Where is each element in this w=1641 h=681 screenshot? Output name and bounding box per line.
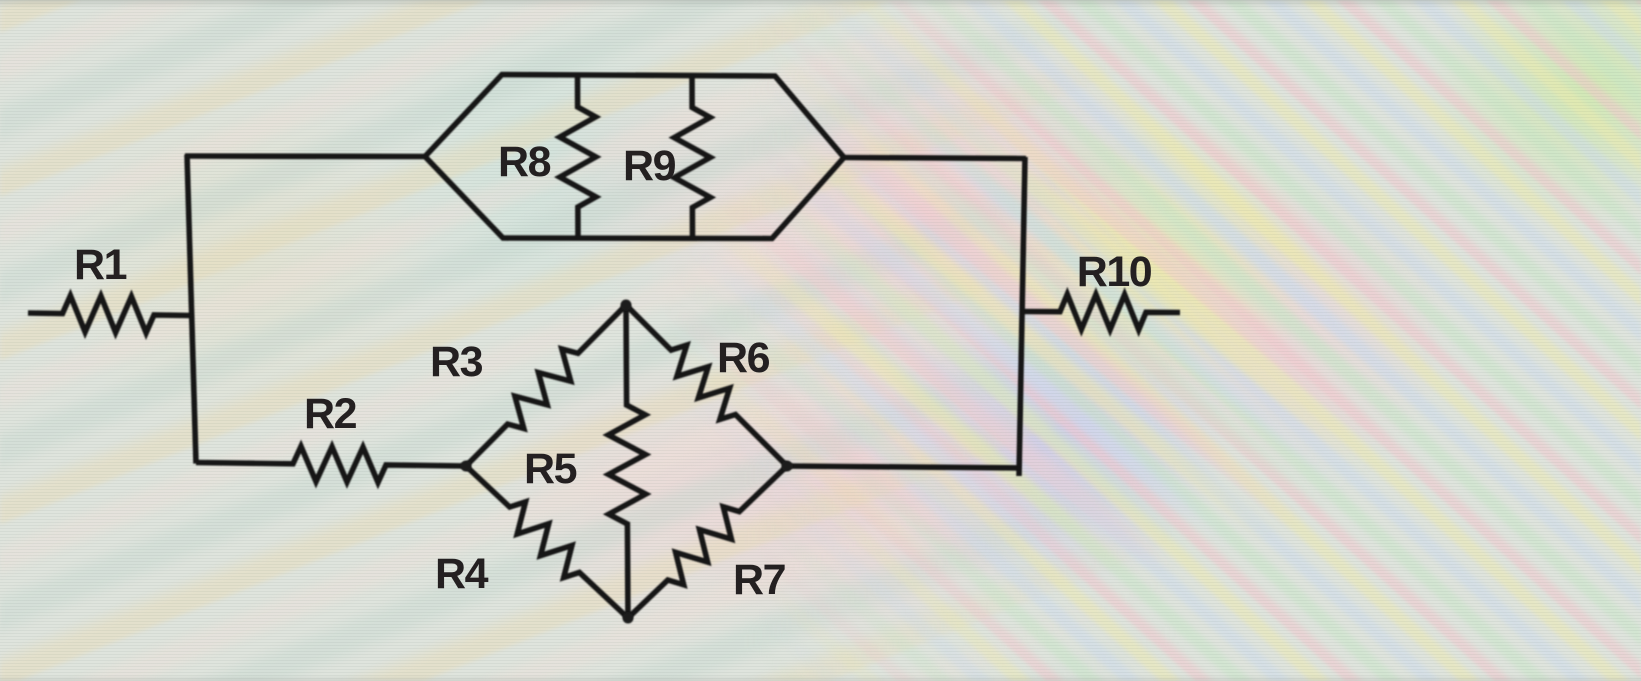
- wire right bus vertical: [1019, 157, 1025, 476]
- node bottom of diamond: [623, 613, 634, 624]
- resistor R2: [196, 446, 466, 482]
- node left of diamond: [461, 461, 472, 472]
- svg-text:R3: R3: [430, 338, 483, 386]
- resistor R5: [608, 305, 645, 618]
- resistor R6: [626, 305, 787, 466]
- svg-text:R4: R4: [435, 550, 489, 598]
- wire hexagon outline: [425, 75, 844, 239]
- wire left bus vertical: [187, 155, 196, 464]
- resistor R4: [466, 466, 628, 618]
- resistor R8: [560, 75, 596, 239]
- svg-text:R9: R9: [623, 142, 676, 190]
- svg-text:R10: R10: [1077, 248, 1152, 296]
- resistor R1: [28, 296, 190, 333]
- wire bottom-right horizontal: [787, 466, 1022, 468]
- svg-text:R5: R5: [524, 445, 577, 493]
- resistor R10: [1022, 294, 1180, 329]
- resistor R3: [466, 305, 626, 466]
- svg-text:R8: R8: [498, 138, 551, 186]
- svg-text:R1: R1: [74, 241, 127, 289]
- resistor R7: [628, 466, 787, 618]
- resistor R9: [674, 76, 710, 240]
- svg-text:R6: R6: [717, 334, 770, 382]
- wire top-left horizontal: [185, 153, 425, 159]
- node right of diamond: [782, 461, 793, 472]
- svg-text:R7: R7: [733, 556, 786, 604]
- node top of diamond: [621, 300, 632, 311]
- svg-text:R2: R2: [304, 390, 357, 438]
- wire top-right horizontal: [844, 158, 1026, 159]
